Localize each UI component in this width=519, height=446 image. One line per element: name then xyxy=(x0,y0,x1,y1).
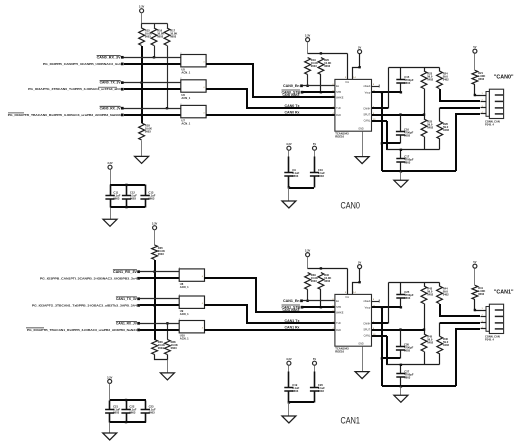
svg-text:0603: 0603 xyxy=(130,197,136,201)
svg-text:ACN_1: ACN_1 xyxy=(180,337,189,341)
junction - bank middle cap bottom xyxy=(125,421,127,423)
wire - bank ground stem xyxy=(110,208,112,220)
net label PG_IO3PPB_CAN0PTI_3CANPB_UIOBNAC3_3o4 (CAN0 row b1) xyxy=(43,62,121,66)
svg-text:0402: 0402 xyxy=(427,78,433,82)
net label PG_IO3APTB_TBACAN1_Rx3PPB_3-IOBAC3_uraPB3_AD3PB3_NaN34 (CAN1 row b3) xyxy=(26,328,137,332)
ground - U11 xyxy=(355,372,369,379)
svg-text:PJ45_4: PJ45_4 xyxy=(485,123,495,127)
svg-text:0603: 0603 xyxy=(311,64,317,68)
svg-text:CAN0: CAN0 xyxy=(341,201,360,211)
resistor R24 59R (series CANH) xyxy=(437,68,450,89)
svg-text:0603: 0603 xyxy=(292,174,298,178)
svg-text:0603: 0603 xyxy=(170,35,176,39)
capacitor C9 0.1uF xyxy=(284,151,299,188)
svg-text:nFault: nFault xyxy=(363,300,370,303)
wire - power stem to R21 xyxy=(474,269,476,286)
junction - low rail at C27 xyxy=(400,364,402,366)
resistor R35 10.0K pull-up xyxy=(152,245,165,260)
net label CAN1_RX_JV (CAN1 row a3) xyxy=(116,321,138,325)
junction - R17 column on row 3 xyxy=(166,107,168,109)
wire - caps ground stem xyxy=(288,403,290,417)
wire - CAN1_RX_JV to choke input xyxy=(140,323,180,325)
wire - CAN1_RX_3V to choke input xyxy=(140,271,180,273)
common-mode choke U6 (ACN_2) xyxy=(180,78,206,100)
junction - STB row xyxy=(320,306,322,308)
pin square CAN0_STB xyxy=(301,91,304,94)
wire - split cap to ground bus xyxy=(381,357,400,359)
resistor R16 10.0K xyxy=(151,28,164,46)
wire - power stem down xyxy=(307,42,309,54)
net label CAN1_En xyxy=(283,299,300,303)
svg-text:CAN1_TX_3V: CAN1_TX_3V xyxy=(116,297,138,301)
junction - low rail at C17 xyxy=(400,149,402,151)
svg-text:PG_IO3APTG_3TBCAN0_Tx3PPB_3-IO: PG_IO3APTG_3TBCAN0_Tx3PPB_3-IOBAC3_ur3Tb… xyxy=(28,87,121,91)
svg-text:0402: 0402 xyxy=(427,293,433,297)
wire - R43 column to R45 xyxy=(424,304,426,335)
wire - CANH from IC xyxy=(372,107,388,109)
junction - R35 column on row 1a xyxy=(153,271,155,273)
wire - power stem to bank top rail xyxy=(110,170,112,185)
junction - bank middle cap top xyxy=(125,184,127,186)
svg-text:CAN0 Tx: CAN0 Tx xyxy=(285,104,300,108)
svg-text:CAN1_En: CAN1_En xyxy=(283,299,300,303)
wire - connector ground pin riser xyxy=(456,329,480,386)
wire - R40 to STB row xyxy=(320,290,322,308)
resistor R25 59R (split termination lower) xyxy=(421,119,434,150)
wire - R39 to EN row xyxy=(307,290,309,301)
power symbol 5V (VIO) xyxy=(358,46,362,54)
svg-text:5V: 5V xyxy=(473,260,476,264)
wire - R15 leg from rail xyxy=(141,24,143,29)
ground - CAN1 bypass bank xyxy=(103,433,117,440)
wire - R21 to connector pin 1 xyxy=(475,85,481,96)
net label CAN1_RX_3V (CAN1 row a1) xyxy=(113,270,138,274)
wire - bank ground stem xyxy=(109,423,111,434)
ground - U4 xyxy=(355,157,369,164)
junction - caps ground tee xyxy=(288,401,290,403)
junction - pull-up rail at R20 xyxy=(320,52,322,54)
resistor R19 10.0K (EN pull-up) xyxy=(305,58,318,75)
svg-text:0603: 0603 xyxy=(404,81,410,85)
power symbol 3.3V (C19) xyxy=(286,357,292,365)
wire - R35 column down through rows to R36 xyxy=(154,260,156,340)
wire - R19 to EN row xyxy=(307,75,309,86)
pin square of CAN1_TX_3V xyxy=(137,297,140,300)
resistor R26 59R (series CANL) xyxy=(437,108,450,150)
svg-text:PG_IO3APTB_TBACAN1_Rx3PPB_3-IO: PG_IO3APTB_TBACAN1_Rx3PPB_3-IOBAC3_uraPB… xyxy=(27,328,137,332)
net label PG_IO3PPB_CAN1PTI_3CANPB_3-IOBNAC3_UIOBPB3_3o4 (CAN1 row b1) xyxy=(40,276,137,280)
svg-text:5V: 5V xyxy=(358,46,361,50)
svg-text:0603: 0603 xyxy=(145,35,151,39)
wire - caps bottom rail xyxy=(289,401,314,403)
svg-text:CANL: CANL xyxy=(364,335,371,338)
svg-text:0603: 0603 xyxy=(129,410,135,414)
resistor R38 10.0K to ground xyxy=(165,340,178,355)
svg-text:RxD: RxD xyxy=(336,114,341,117)
svg-text:Vsup: Vsup xyxy=(365,306,371,309)
junction - column on row 3a xyxy=(166,322,168,324)
svg-text:0603: 0603 xyxy=(157,35,163,39)
svg-text:CAN0_TX_3V: CAN0_TX_3V xyxy=(100,81,122,85)
wire - R23 column to R25 xyxy=(424,89,426,120)
pin square of CAN0_RX_3V xyxy=(121,56,124,59)
wire - rail over to VCC pin xyxy=(308,53,348,55)
wire - R16 leg from rail xyxy=(154,24,156,29)
wire - nFault stub xyxy=(372,86,380,88)
svg-text:0603: 0603 xyxy=(404,296,410,300)
wire - connector CANL pin to R46 xyxy=(440,322,480,324)
svg-text:WAKE: WAKE xyxy=(336,311,344,314)
junction - SPLIT on R23 column xyxy=(423,113,425,115)
junction - SPLIT on R43 column xyxy=(423,328,425,330)
wire - CAN1_STB to IC xyxy=(303,306,335,308)
junction - SPLIT at split cap xyxy=(399,328,401,330)
pin square of PG_IO3APTB_TBACAN0_Rx3PPB_3-IOBAC3_uraPB3_AD3PB3_NaN33 xyxy=(121,114,124,117)
wire - CAN0_RX_JV to choke input xyxy=(124,108,181,110)
wire - R20 to STB row xyxy=(320,75,322,93)
wire - bank top rail xyxy=(110,399,146,401)
svg-text:3.3V: 3.3V xyxy=(305,34,311,38)
svg-text:GND: GND xyxy=(358,128,364,131)
resistor R21 1.00K (connector power) xyxy=(472,70,485,84)
net label CAN1 Tx xyxy=(285,319,300,323)
svg-text:CAN1_RX_JV: CAN1_RX_JV xyxy=(116,321,138,325)
wire - CAN0_En to IC xyxy=(303,85,335,87)
ground - below R36/R38 xyxy=(160,373,174,380)
svg-text:0603: 0603 xyxy=(311,279,317,283)
wire - caps bottom rail xyxy=(289,187,314,189)
net label CAN1 WAKE xyxy=(283,308,300,312)
wire - CAN0_TX_3V to choke input xyxy=(124,82,181,84)
pin square of CAN0_RX_JV xyxy=(121,107,124,110)
wire - VIO power to IC top pin xyxy=(353,54,360,80)
pin square of PG_IO3APTG_3TBCAN0_Tx3PPB_3-IOBAC3_ur3Tb3_aD4 xyxy=(121,88,124,91)
capacitor C11 0.1uF xyxy=(105,185,120,208)
net label CAN1_TX_3V (CAN1 row a2) xyxy=(116,297,138,301)
capacitor C25 4700pF (CANH filter) xyxy=(396,283,414,308)
capacitor C21 0.1uF xyxy=(105,401,120,423)
net label CAN0 Tx xyxy=(285,104,300,108)
wire - SPLIT row xyxy=(372,114,424,116)
resistor R18 10.0K bias to ground xyxy=(139,123,152,140)
power symbol 3.3V (CAN0 bypass bank) xyxy=(107,161,113,169)
junction - VIO corner xyxy=(358,281,360,283)
svg-text:0402: 0402 xyxy=(427,126,433,130)
wire - power stem down xyxy=(307,257,309,269)
svg-text:0603: 0603 xyxy=(292,389,298,393)
svg-text:RxD: RxD xyxy=(336,329,341,332)
wire - bank bottom rail xyxy=(110,421,146,423)
svg-text:CANH: CANH xyxy=(363,322,370,325)
svg-text:3.3V: 3.3V xyxy=(107,161,113,165)
net label CAN1_STB xyxy=(282,305,301,309)
junction - R15 column crossing row 3b xyxy=(140,114,142,116)
junction - R15 column crossing row 2a xyxy=(140,81,142,83)
wire - CANH rail riser xyxy=(388,283,390,324)
svg-text:"CAN0": "CAN0" xyxy=(494,75,514,81)
wire - ground bus vertical down xyxy=(381,307,383,386)
capacitor C16 4700pF (split) xyxy=(396,115,414,144)
svg-text:CAN1 Rx: CAN1 Rx xyxy=(285,325,300,329)
wire - U4 ground stem xyxy=(362,132,364,157)
svg-text:3.3V: 3.3V xyxy=(107,375,113,379)
wire - termination low rail xyxy=(387,149,440,151)
pin square CAN1_En xyxy=(300,299,303,302)
svg-text:TxD: TxD xyxy=(336,107,341,110)
wire - column from row 3a down to R38 xyxy=(167,324,169,340)
resistor R39 10.0K (EN pull-up) xyxy=(305,273,318,290)
svg-text:"CAN1": "CAN1" xyxy=(494,290,514,296)
svg-text:0402: 0402 xyxy=(443,78,449,82)
svg-text:0603: 0603 xyxy=(171,346,177,350)
wire - rail over to VCC pin xyxy=(308,268,348,270)
svg-text:ACN_1: ACN_1 xyxy=(181,96,190,100)
net label PG_IO3APTG_3TBCAN0_Tx3PPB_3-IOBAC3_ur3Tb3_aD4 (CAN0 row b2) xyxy=(28,87,121,91)
net label PG_IO3APTB_TBACAN0_Rx3PPB_3-IOBAC3_uraPB3_AD3PB3_NaN33 (CAN0 row b3) xyxy=(8,113,121,117)
wire - PG_IO3APTG_3TBCAN1_TxBPPB_3-IOBAC3_uIB3Tb3_3APB_3A4 to choke input xyxy=(140,304,179,306)
pin square of PG_IO3PPB_CAN0PTI_3CANPB_UIOBNAC3_3o4 xyxy=(121,63,124,66)
wire - power stem to resistor R35 xyxy=(154,230,156,246)
wire - split cap to ground bus xyxy=(381,142,400,144)
svg-text:STB: STB xyxy=(336,306,341,309)
svg-text:3.3V: 3.3V xyxy=(286,357,292,361)
svg-text:ACN_1: ACN_1 xyxy=(181,121,190,125)
svg-text:3.3V: 3.3V xyxy=(305,249,311,253)
svg-text:0402: 0402 xyxy=(443,293,449,297)
svg-text:CAN1 WAKE: CAN1 WAKE xyxy=(283,308,300,312)
common-mode choke U7 (ACN_3) xyxy=(180,104,206,126)
wire - U8 output to CAN1 WAKE pin xyxy=(204,278,335,312)
wire - U11 ground stem xyxy=(362,347,364,372)
junction - C15 bottom on ground bus xyxy=(400,91,402,93)
svg-text:0603: 0603 xyxy=(149,410,155,414)
wire - R18 to ground xyxy=(141,141,143,157)
svg-text:5V: 5V xyxy=(313,357,316,361)
wire - CAN1_En to IC xyxy=(303,300,335,302)
junction - connector pin1 wire xyxy=(474,94,476,96)
wire - VCC pin drop xyxy=(347,54,349,80)
wire - caps ground stem xyxy=(288,188,290,202)
wire - ground stem xyxy=(400,172,402,181)
wire - R41 to connector pin 1 xyxy=(475,300,481,311)
pin square of CAN1_RX_3V xyxy=(137,270,140,273)
svg-text:SPLIT: SPLIT xyxy=(363,114,370,117)
wire - CAN0_RX_3V to choke input xyxy=(124,57,181,59)
wire - power stem to pull-up rail xyxy=(141,13,143,24)
junction - ground bus at vertical xyxy=(381,91,383,93)
pin square of PG_IO3APTB_TBACAN1_Rx3PPB_3-IOBAC3_uraPB3_AD3PB3_NaN34 xyxy=(137,329,140,332)
junction - bank middle cap top xyxy=(125,399,127,401)
junction - R35 column on row 2b xyxy=(153,304,155,306)
net label CAN0_STB xyxy=(282,90,301,94)
svg-text:0603: 0603 xyxy=(113,410,119,414)
svg-text:5V: 5V xyxy=(313,142,316,146)
svg-text:0603: 0603 xyxy=(158,346,164,350)
power symbol 5V (C20) xyxy=(313,357,317,365)
common-mode choke U5 (ACN_1) xyxy=(180,53,206,75)
capacitor C13 0.1uF xyxy=(140,185,155,208)
net label CAN0 Rx xyxy=(285,110,300,114)
svg-text:0603: 0603 xyxy=(404,133,410,137)
resistor R15 10.0K xyxy=(139,28,152,46)
svg-text:CANH: CANH xyxy=(363,107,370,110)
svg-text:Vsup: Vsup xyxy=(365,91,371,94)
svg-text:0402: 0402 xyxy=(443,343,449,347)
junction - bottom rail at ground stem xyxy=(400,170,402,172)
wire - CANH rail riser xyxy=(388,68,390,109)
pin square of PG_IO3APTG_3TBCAN1_TxBPPB_3-IOBAC3_uIB3Tb3_3APB_3A4 xyxy=(137,304,140,307)
resistor R20 10.0K (STB pull-up) xyxy=(318,58,331,75)
svg-text:WAKE: WAKE xyxy=(336,96,344,99)
capacitor C10 0.1uF xyxy=(310,151,325,188)
junction - ground bus at split cap wire xyxy=(381,357,383,359)
wire - resistor bottoms joining rail xyxy=(155,355,168,360)
wire - CANL drop to low rail xyxy=(386,121,388,150)
power symbol 5V (C10) xyxy=(313,142,317,150)
resistor R45 59R (split termination lower) xyxy=(421,334,434,365)
resistor R41 1.00K (connector power) xyxy=(472,285,485,299)
ground - below R18 xyxy=(135,156,149,163)
capacitor C17 4700pF (CANL filter) xyxy=(396,150,414,172)
svg-text:CANL: CANL xyxy=(364,120,371,123)
section title CAN0 xyxy=(341,201,360,211)
net label "CAN0" xyxy=(494,75,514,81)
wire - R17 column down to row 3 xyxy=(167,46,169,109)
svg-text:CAN0 WAKE: CAN0 WAKE xyxy=(283,93,300,97)
ground - termination network xyxy=(394,180,408,187)
capacitor C19 0.1uF xyxy=(284,366,299,403)
wire - connector ground pin riser xyxy=(456,114,480,171)
net label CAN0_RX_3V (CAN0 row a1) xyxy=(97,55,122,59)
svg-text:ACN_1: ACN_1 xyxy=(180,285,189,289)
resistor R43 59R (split termination upper) xyxy=(421,283,434,304)
wire - CANL drop to low rail xyxy=(386,336,388,365)
wire - SPLIT row xyxy=(372,329,424,331)
ground - C19/C20 xyxy=(282,416,296,423)
svg-text:TxD: TxD xyxy=(336,322,341,325)
pin square of CAN1_RX_JV xyxy=(137,322,140,325)
wire - U9 output to CAN1 TXD pin xyxy=(204,305,335,323)
resistor R40 10.0K (STB pull-up) xyxy=(318,273,331,290)
svg-text:0603: 0603 xyxy=(113,197,119,201)
net label "CAN1" xyxy=(494,290,514,296)
wire - ground bus from Vsup pin xyxy=(372,306,401,308)
capacitor C22 0.1uF xyxy=(121,401,136,423)
net label CAN0 WAKE xyxy=(283,93,300,97)
svg-text:CAN0_En: CAN0_En xyxy=(283,84,300,88)
svg-text:nFault: nFault xyxy=(363,85,370,88)
wire - pull-up top rail xyxy=(142,23,168,25)
svg-text:3.3V: 3.3V xyxy=(152,222,158,226)
wire - bank top rail xyxy=(110,184,145,186)
net label PG_IO3APTG_3TBCAN1_TxBPPB_3-IOBAC3_uIB3Tb3_3APB_3A4 (CAN1 row b2) xyxy=(32,303,137,307)
resistor R17 10.0K xyxy=(164,28,177,46)
CAN transceiver U4 TCAN1043 xyxy=(332,77,376,138)
power symbol 3.3V (C9) xyxy=(286,142,292,150)
common-mode choke U9 (ACN_2) xyxy=(179,294,205,316)
junction - VIO corner xyxy=(358,66,360,68)
wire - R17 leg from rail xyxy=(167,24,169,29)
wire - PG_IO3PPB_CAN1PTI_3CANPB_3-IOBNAC3_UIOBPB3_3o4 to choke input xyxy=(140,277,179,279)
svg-text:0603: 0603 xyxy=(324,279,330,283)
power symbol 3.3V (top-left pull-up rail) xyxy=(139,5,145,13)
wire - U5 output to CAN0 WAKE pin xyxy=(206,64,335,97)
svg-text:0402: 0402 xyxy=(427,341,433,345)
wire - ground bus vertical down xyxy=(381,92,383,171)
wire - bank bottom rail xyxy=(110,206,145,208)
svg-text:CAN1 Tx: CAN1 Tx xyxy=(285,319,300,323)
capacitor C12 0.1uF xyxy=(122,185,137,208)
power symbol 5V (VIO) xyxy=(358,261,362,269)
svg-text:3.3V: 3.3V xyxy=(286,142,292,146)
svg-text:3.3V: 3.3V xyxy=(139,5,145,9)
junction - EN row xyxy=(306,300,308,302)
resistor R36 10.0K to ground xyxy=(152,340,165,355)
svg-text:CAN0_RX_3V: CAN0_RX_3V xyxy=(97,55,122,59)
wire - termination low rail xyxy=(387,364,440,366)
wire - ground bus from Vsup pin xyxy=(372,91,401,93)
power symbol 3.3V (CAN0 transceiver pull-ups) xyxy=(305,34,311,42)
ground - CAN0 bypass bank xyxy=(103,219,117,226)
capacitor C23 0.1uF xyxy=(141,401,156,423)
wire - CANL from IC xyxy=(372,335,387,337)
svg-text:ACN_1: ACN_1 xyxy=(181,71,190,75)
svg-text:0603: 0603 xyxy=(145,130,151,134)
svg-text:PG_IO3APTG_3TBCAN1_TxBPPB_3-IO: PG_IO3APTG_3TBCAN1_TxBPPB_3-IOBAC3_uIB3T… xyxy=(32,303,137,307)
junction - caps ground tee xyxy=(288,186,290,188)
junction - R16 column on RX row xyxy=(153,56,155,58)
wire - R24 to connector CANH pin xyxy=(440,89,480,101)
wire - power stem to R21 xyxy=(474,54,476,71)
svg-text:CAN0_RX_JV: CAN0_RX_JV xyxy=(100,106,122,110)
wire - ground bottom rail xyxy=(382,170,456,172)
net label CAN0_TX_3V (CAN0 row a2) xyxy=(100,81,122,85)
svg-text:0402: 0402 xyxy=(443,128,449,132)
wire - VCC pin drop xyxy=(347,269,349,295)
wire - CANH from IC xyxy=(372,322,388,324)
svg-text:CAN1: CAN1 xyxy=(341,416,360,426)
svg-text:CAN1_RX_3V: CAN1_RX_3V xyxy=(113,270,138,274)
svg-text:0603: 0603 xyxy=(404,348,410,352)
net label CAN0_RX_JV (CAN0 row a3) xyxy=(100,106,122,110)
pin square CAN0_En xyxy=(300,84,303,87)
power symbol 5V (CAN1 connector) xyxy=(473,260,477,268)
wire - U6 output to CAN0 TXD pin xyxy=(206,89,335,108)
pin square of CAN0_TX_3V xyxy=(121,81,124,84)
junction - ground bus at split cap wire xyxy=(381,142,383,144)
svg-text:RGE16: RGE16 xyxy=(335,135,344,139)
power symbol 3.3V (CAN1 bypass bank) xyxy=(107,375,113,383)
svg-text:0603: 0603 xyxy=(318,174,324,178)
CAN transceiver U11 TCAN1043 xyxy=(332,292,376,353)
junction - bottom rail at ground stem xyxy=(400,385,402,387)
capacitor C20 0.1uF xyxy=(310,366,325,403)
wire - U10 output to CAN1 RXD pin xyxy=(204,329,335,331)
wire - PG_IO3APTB_TBACAN0_Rx3PPB_3-IOBAC3_uraPB3_AD3PB3_NaN33 to choke input xyxy=(124,114,181,116)
junction - STB row xyxy=(320,91,322,93)
resistor R44 59R (series CANH) xyxy=(437,283,450,304)
power symbol 3.3V (CAN1 transceiver pull-ups) xyxy=(305,249,311,257)
pin square CAN1_STB xyxy=(301,306,304,309)
svg-text:5V: 5V xyxy=(473,45,476,49)
svg-text:RGE16: RGE16 xyxy=(335,350,344,354)
wire - CAN0_STB to IC xyxy=(303,91,335,93)
svg-text:PJ45_4: PJ45_4 xyxy=(485,338,495,342)
junction - C25 bottom on ground bus xyxy=(400,306,402,308)
svg-text:ACN_1: ACN_1 xyxy=(180,312,189,316)
wire - R16 column down to RX row xyxy=(154,46,156,58)
resistor R46 59R (series CANL) xyxy=(437,323,450,365)
